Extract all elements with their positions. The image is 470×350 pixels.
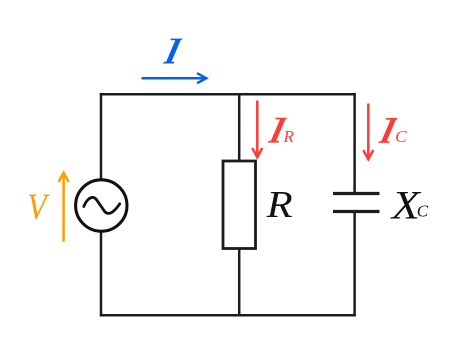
wire middle lower [238,249,241,316]
wire top [100,93,356,96]
AC source sine wave [84,197,120,213]
label IR (red) [268,118,288,143]
svg-text:R: R [266,183,293,225]
capacitor Xc top plate [333,192,380,195]
wire bottom [100,314,356,317]
voltage arrow V (orange) [59,173,68,241]
current arrow IR (red) [253,102,262,158]
svg-text:V: V [27,187,50,228]
svg-text:R: R [283,127,295,146]
capacitor Xc bottom plate [333,210,380,213]
svg-text:C: C [417,201,429,220]
current arrow IC (red) [364,105,373,160]
wire right upper [353,93,356,192]
current arrow I (blue) [143,74,207,83]
label IC (red) [378,118,398,143]
svg-text:C: C [395,127,407,146]
label I (blue) [163,39,183,64]
wire right lower [353,213,356,316]
resistor R body [223,161,256,249]
wire middle upper [238,94,241,161]
wire left upper [100,93,103,181]
AC source V1 circle [76,180,127,231]
wire left lower [100,231,103,317]
